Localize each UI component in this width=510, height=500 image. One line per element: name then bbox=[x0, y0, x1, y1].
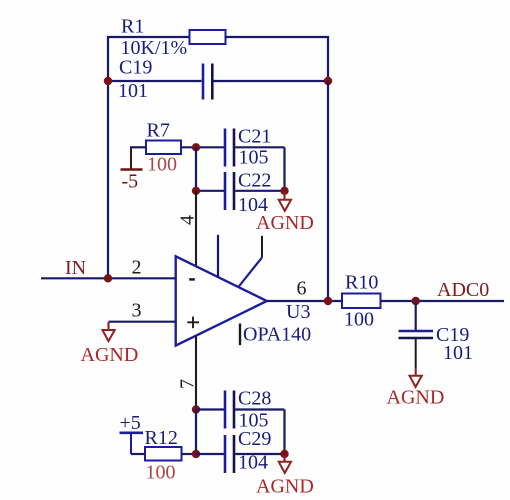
power +5 bar bbox=[120, 433, 144, 454]
label AGND (output C19) bbox=[387, 387, 445, 409]
wire: right rail (C19 row to output) bbox=[327, 81, 329, 301]
svg-text:C22: C22 bbox=[238, 170, 271, 192]
wire: C19 output to AGND bbox=[415, 338, 417, 368]
svg-text:U3: U3 bbox=[286, 301, 310, 323]
label AGND (C21/C22) bbox=[256, 212, 314, 234]
svg-text:100: 100 bbox=[147, 154, 177, 176]
wire: node down to C19 output cap bbox=[415, 301, 417, 330]
pin 4 line bbox=[195, 191, 197, 267]
junction: C22 right / AGND node bbox=[280, 187, 288, 195]
label 101 bbox=[118, 80, 148, 102]
label R7 bbox=[147, 120, 170, 142]
junction: R12 / C29 node bbox=[192, 450, 200, 458]
wire: C19 row left segment bbox=[108, 80, 202, 82]
svg-text:2: 2 bbox=[132, 257, 142, 279]
op-amp U3 triangle bbox=[176, 256, 267, 345]
junction: R7 / C21 node bbox=[192, 143, 200, 151]
label R12 bbox=[145, 427, 178, 449]
junction: R10 / C19 output node bbox=[412, 297, 420, 305]
net label IN bbox=[65, 257, 86, 279]
wire: right branch C21 to C22 bbox=[283, 147, 285, 191]
svg-text:100: 100 bbox=[344, 309, 374, 331]
label +5 bbox=[120, 412, 141, 434]
svg-text:7: 7 bbox=[177, 379, 199, 389]
svg-text:AGND: AGND bbox=[81, 344, 139, 366]
svg-text:R1: R1 bbox=[121, 16, 144, 38]
ground AGND (output C19) bbox=[410, 368, 422, 387]
capacitor C22 bbox=[225, 172, 234, 210]
wire: op-amp output to R10 bbox=[267, 300, 342, 302]
svg-text:R12: R12 bbox=[145, 427, 178, 449]
svg-text:R7: R7 bbox=[147, 120, 170, 142]
label 104 (C29) bbox=[238, 452, 268, 474]
label 10K/1% bbox=[121, 37, 188, 59]
resistor R7 bbox=[146, 141, 181, 155]
label C28 bbox=[238, 388, 271, 410]
op-amp angled stub pin (x262) bbox=[238, 236, 262, 288]
pin number 4 bbox=[177, 215, 199, 225]
wire: left rail bbox=[107, 36, 109, 278]
pin number 7 bbox=[177, 379, 199, 389]
capacitor C21 bbox=[225, 129, 234, 167]
wire: right rail top (R1 to C19 row) bbox=[327, 36, 329, 81]
svg-text:ADC0: ADC0 bbox=[437, 279, 489, 301]
svg-text:IN: IN bbox=[65, 257, 86, 279]
junction: right rail / C19 row bbox=[324, 77, 332, 85]
wire: right branch C28 to C29 bbox=[283, 410, 285, 455]
label AGND (pin 3) bbox=[81, 344, 139, 366]
svg-text:R10: R10 bbox=[345, 272, 378, 294]
wire: R7 to C21 bbox=[181, 146, 224, 148]
svg-text:4: 4 bbox=[177, 215, 199, 225]
wire: node to C22 vertical bbox=[195, 147, 197, 191]
svg-text:OPA140: OPA140 bbox=[243, 324, 311, 346]
wire: top feedback right segment bbox=[226, 36, 330, 38]
junction: IN / left rail bbox=[104, 274, 112, 282]
svg-text:100: 100 bbox=[146, 462, 176, 484]
ground AGND (pin 3) bbox=[102, 322, 114, 341]
svg-text:C28: C28 bbox=[238, 388, 271, 410]
label 105 (C21) bbox=[239, 147, 269, 169]
label C19 bbox=[119, 57, 152, 79]
resistor R1 bbox=[190, 30, 226, 44]
svg-text:C21: C21 bbox=[238, 126, 271, 148]
wire: C28 right segment bbox=[235, 408, 284, 410]
label 100 (R10) bbox=[344, 309, 374, 331]
ground AGND (C28/C29) bbox=[279, 456, 291, 473]
svg-text:101: 101 bbox=[443, 342, 473, 364]
pin number 6 bbox=[297, 278, 307, 300]
junction: pin7 / C28 node bbox=[192, 405, 200, 413]
resistor R10 bbox=[342, 294, 381, 309]
wire: C19 row right segment bbox=[214, 80, 329, 82]
ground AGND (C21/C22) bbox=[279, 192, 291, 211]
op-amp bottom bar pin (x240) bbox=[239, 324, 241, 346]
label 100 (R7) bbox=[147, 154, 177, 176]
svg-text:C29: C29 bbox=[238, 428, 271, 450]
junction: C22 left node bbox=[192, 187, 200, 195]
label C21 bbox=[238, 126, 271, 148]
op-amp plus mark bbox=[187, 317, 199, 329]
junction: C29 right / AGND node bbox=[280, 450, 288, 458]
wire: R12 to node bbox=[182, 453, 197, 455]
wire: C22 left segment bbox=[196, 190, 224, 192]
wire: top feedback left segment bbox=[108, 36, 190, 38]
svg-text:AGND: AGND bbox=[256, 212, 314, 234]
net label ADC0 bbox=[437, 279, 489, 301]
wire: node to C29 bbox=[196, 453, 224, 455]
wire: C22 right segment bbox=[235, 190, 284, 192]
label C29 bbox=[238, 428, 271, 450]
power -5 bar bbox=[121, 148, 143, 170]
wire: C21 right to right branch bbox=[235, 146, 284, 148]
capacitor C19 (output) bbox=[399, 331, 434, 338]
designator U3 bbox=[286, 301, 310, 323]
svg-text:AGND: AGND bbox=[387, 387, 445, 409]
svg-text:6: 6 bbox=[297, 278, 307, 300]
svg-text:C19: C19 bbox=[119, 57, 152, 79]
capacitor C28 bbox=[225, 391, 234, 429]
label R10 bbox=[345, 272, 378, 294]
junction: left rail / C19 row bbox=[104, 77, 112, 85]
label AGND (C28/C29) bbox=[256, 476, 314, 498]
svg-text:101: 101 bbox=[118, 80, 148, 102]
wire: +5 to R12 bbox=[131, 453, 145, 455]
wire: -5 to R7 bbox=[130, 146, 146, 148]
capacitor C29 bbox=[225, 435, 234, 473]
op-amp top stub pin (x218) bbox=[217, 235, 219, 278]
pin 7 line bbox=[195, 336, 197, 410]
svg-text:105: 105 bbox=[239, 147, 269, 169]
svg-text:+5: +5 bbox=[120, 412, 141, 434]
capacitor C19 (feedback) bbox=[203, 64, 212, 100]
label C22 bbox=[238, 170, 271, 192]
pin number 3 bbox=[132, 300, 142, 322]
label 104 (C22) bbox=[238, 194, 268, 216]
svg-text:3: 3 bbox=[132, 300, 142, 322]
svg-text:104: 104 bbox=[238, 452, 268, 474]
wire: R10 to ADC0 bbox=[381, 300, 505, 302]
wire: IN to pin 2 bbox=[41, 277, 176, 279]
label -5 bbox=[122, 171, 139, 193]
label R1 bbox=[121, 16, 144, 38]
pin number 2 bbox=[132, 257, 142, 279]
wire: pin7 node down to R12 row bbox=[195, 410, 197, 455]
svg-text:AGND: AGND bbox=[256, 476, 314, 498]
part value OPA140 bbox=[243, 324, 311, 346]
svg-text:-5: -5 bbox=[122, 171, 139, 193]
op-amp minus mark bbox=[189, 278, 195, 281]
label 101 (output) bbox=[443, 342, 473, 364]
resistor R12 bbox=[145, 447, 182, 461]
label 100 (R12) bbox=[146, 462, 176, 484]
wire: node to C28 bbox=[196, 408, 224, 410]
label C19 (output) bbox=[436, 324, 469, 346]
wire: pin 3 bbox=[109, 321, 176, 323]
wire: C29 right segment bbox=[235, 453, 284, 455]
label 105 (C28) bbox=[239, 410, 269, 432]
junction: output / right rail bbox=[324, 297, 332, 305]
